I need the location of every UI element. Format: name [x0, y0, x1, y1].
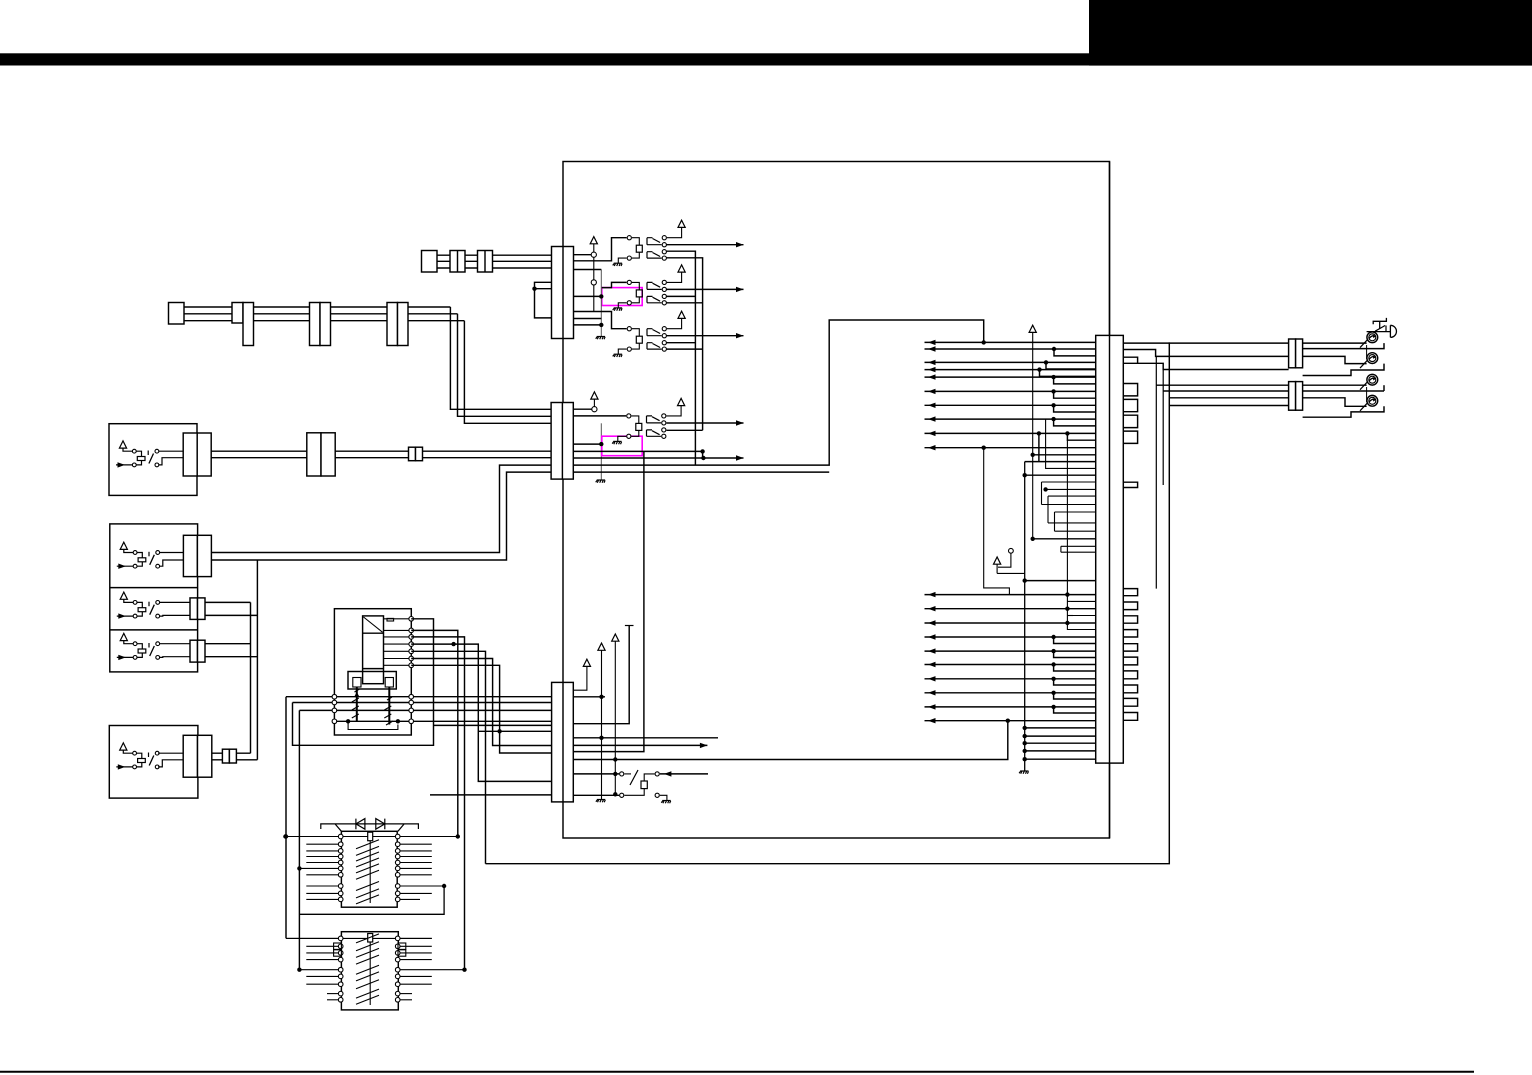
output wire spare jog	[1138, 363, 1289, 369]
wires RL2 to connector	[160, 552, 184, 554]
wire T1 row	[384, 658, 412, 660]
connector P8	[307, 433, 321, 476]
signal line L10	[925, 720, 1096, 722]
wire drops to CN2	[450, 307, 551, 409]
gnd lead U6	[655, 793, 659, 797]
feed elbow	[1051, 635, 1055, 639]
lamp L4 slash	[1360, 401, 1369, 411]
base plate	[348, 672, 396, 690]
U2 left leads	[602, 282, 627, 287]
signal line U10	[925, 447, 1096, 449]
wire RL5 out	[212, 752, 251, 754]
mech link dash 3-4	[1366, 387, 1368, 402]
lamp L2	[1367, 353, 1378, 364]
power symbol right	[1029, 325, 1036, 332]
jumper	[1123, 399, 1137, 411]
lamp L3 slash	[1360, 380, 1369, 390]
long loop to right column	[573, 320, 983, 465]
jumper	[1123, 589, 1137, 596]
switch row A10	[306, 898, 338, 900]
ch1 return	[1303, 343, 1384, 349]
elbow L1-L3	[1071, 600, 1096, 602]
connector P10	[222, 749, 229, 763]
feed elbow	[1051, 662, 1055, 666]
stem link bar	[348, 721, 398, 729]
connector P9	[409, 447, 416, 461]
vertical to gnd at CN1	[600, 270, 602, 337]
switch row B8	[327, 993, 338, 995]
wire RL3 rows	[205, 601, 251, 603]
relay module U1: power symbol	[678, 220, 685, 227]
power symbol	[120, 743, 127, 750]
signal line L1	[925, 594, 1096, 596]
wire CN2 row 451	[573, 450, 702, 452]
feed elbow	[1051, 677, 1055, 681]
wire T1 row1 riser + left loop	[293, 619, 434, 746]
switch row A1	[285, 836, 338, 838]
signal line U3	[925, 361, 1096, 363]
wire T1 row	[384, 618, 412, 620]
connector CN3	[552, 682, 574, 802]
jumper	[1123, 415, 1137, 427]
jumper	[1123, 713, 1137, 721]
signal line U2	[925, 348, 1096, 350]
wire riser row 651 to bottom loop	[411, 651, 485, 863]
arrow line U6	[660, 773, 708, 775]
wire riser row 658	[411, 659, 551, 746]
connector pair P5	[232, 303, 243, 324]
lamp L4	[1367, 395, 1378, 406]
wire coil row A	[285, 836, 457, 838]
switch row B9	[327, 999, 338, 1001]
switch contact	[148, 552, 150, 557]
actuator line B	[369, 942, 371, 1005]
wire pair RL1 to CN2	[211, 450, 551, 452]
feed elbow	[1051, 691, 1055, 695]
connector CN1	[552, 247, 574, 339]
relay module U1: coil	[636, 245, 642, 252]
wire T1 row	[384, 664, 412, 666]
feed elbow	[1051, 403, 1055, 407]
junction	[451, 642, 455, 646]
jumper	[1123, 644, 1137, 651]
jumper	[1123, 657, 1137, 665]
switch row A4	[306, 856, 338, 858]
wire bus riser B	[256, 560, 258, 760]
switch row A7	[306, 874, 338, 876]
bundle row	[1022, 741, 1026, 745]
wire riser to block B	[411, 637, 464, 970]
switch row B4	[306, 959, 338, 961]
junction riser/block A	[456, 834, 460, 838]
relay module U1: contact pins	[662, 236, 666, 240]
long feed vertical	[1066, 440, 1068, 623]
long wire row 759 to right column	[573, 721, 1008, 760]
switch bank block B	[341, 932, 398, 1010]
wire 3-core cable to CN1	[437, 254, 552, 256]
arrow line U2	[667, 288, 744, 290]
relay unit box RL1	[109, 424, 197, 496]
ch3 return	[1383, 385, 1385, 391]
output wires block2	[1156, 384, 1366, 386]
buzzer BZ1	[1373, 318, 1386, 329]
connector P4	[169, 303, 185, 325]
relay module U1: coil pin top	[627, 236, 631, 240]
relay module U3: coil pin top	[627, 327, 631, 331]
connector CN-RL2	[183, 535, 197, 576]
signal line L4	[925, 636, 1096, 638]
wires RL5 to connector	[158, 752, 183, 754]
input arrow	[117, 656, 133, 658]
junction riser/block B	[462, 968, 466, 972]
connector pair P6	[310, 303, 321, 346]
pink highlight loop 1	[602, 288, 642, 306]
wire riser row 644	[411, 644, 551, 781]
U1 left leads	[573, 238, 626, 261]
lamp L3	[1367, 374, 1378, 385]
relay module U5: contact pins	[662, 414, 666, 418]
relay module U1: ground lead	[618, 258, 626, 263]
connector CN-RL3	[190, 598, 198, 620]
ch4 lamp feed	[1303, 398, 1367, 407]
signal line L6	[925, 664, 1096, 666]
switch row A2	[306, 843, 338, 845]
arrow line U5	[667, 422, 744, 424]
right link A8 to B	[299, 886, 444, 914]
jumper	[1123, 431, 1137, 443]
switch row A5	[306, 862, 338, 864]
switch row B6	[306, 975, 338, 977]
bundle row	[1022, 757, 1026, 761]
output wire ch1	[1123, 342, 1366, 344]
wire 3-core cable mid chain	[184, 306, 450, 308]
side tabs B	[334, 943, 342, 949]
signal line U6	[925, 390, 1096, 392]
input arrow	[116, 464, 132, 466]
relay module U5: coil	[636, 423, 642, 430]
bus U3 rows	[667, 342, 696, 344]
lamp L1 slash	[1360, 338, 1369, 348]
connector pair P2	[450, 251, 465, 273]
wire bottom row	[293, 702, 552, 704]
relay module U5: ground lead	[618, 436, 626, 441]
relay module U6	[573, 773, 619, 775]
relay coil	[133, 642, 137, 646]
jumper	[1123, 698, 1137, 706]
relay module U3: coil	[636, 336, 642, 343]
feed elbow	[1051, 649, 1055, 653]
switch contact	[148, 602, 150, 607]
connector CN-RL5	[183, 735, 197, 777]
feed elbow	[1037, 367, 1041, 371]
stem junction dots	[346, 719, 350, 723]
signal line U5	[925, 376, 1096, 378]
connector CN-RL4	[190, 640, 198, 662]
switch row A3	[306, 850, 338, 852]
footer rule	[0, 1071, 1474, 1073]
feed elbow	[1044, 360, 1048, 364]
wires RL3 to connector	[160, 601, 190, 603]
switch row B3	[306, 952, 338, 954]
CN1 left hook loop	[535, 282, 552, 318]
bus U5 row2	[667, 429, 703, 431]
input arrow	[117, 615, 133, 617]
connector CN10	[1096, 335, 1124, 763]
switch contact	[147, 451, 149, 456]
left loop riser 2	[298, 710, 300, 969]
relay module U3: power symbol	[678, 311, 685, 318]
bus U1 rows	[667, 251, 696, 465]
input arrow	[116, 766, 132, 768]
junction on row 444	[599, 442, 603, 446]
transformer block outline	[334, 609, 411, 735]
signal line L5	[925, 650, 1096, 652]
lamp L1	[1367, 332, 1378, 343]
wire T1 row	[384, 629, 412, 631]
power symbol at CN1	[590, 237, 597, 244]
wire row 738 long	[573, 737, 718, 739]
pink highlight loop 2	[602, 436, 642, 456]
signal line U1	[925, 341, 1096, 343]
connector pair P7	[387, 303, 398, 346]
jumper	[1123, 685, 1137, 693]
wire row 725 jog	[434, 724, 552, 726]
feed elbow	[1051, 705, 1055, 709]
ch2 return	[1303, 364, 1384, 376]
bundle row	[1022, 749, 1026, 753]
wire long bottom loop	[486, 342, 1170, 863]
comb pair top	[1123, 357, 1137, 363]
input arrow	[117, 565, 133, 567]
power symbol	[120, 633, 127, 640]
vertical feeder 2	[1162, 370, 1164, 486]
wire row 795	[430, 794, 552, 796]
capacitor C1	[387, 618, 394, 621]
power rail vertical	[1032, 332, 1034, 538]
gnd at bundle	[1019, 771, 1028, 774]
pin stub circle	[1009, 548, 1014, 553]
wire RL2 upper to CN2	[211, 465, 551, 552]
power symbol mid	[994, 557, 1001, 564]
relay module U2: power symbol	[678, 265, 685, 272]
signal line U9	[925, 432, 1096, 434]
feed elbow	[1065, 431, 1069, 435]
switch bank block A	[341, 831, 397, 907]
bus U2 rows	[667, 295, 696, 297]
arrow line U1	[667, 244, 744, 246]
vertical feeder 1	[1155, 356, 1157, 588]
arrow tick stem A	[355, 692, 359, 696]
wire coil row B	[286, 937, 432, 939]
mech link dash 1-2	[1366, 345, 1368, 359]
bundle rows mid	[1033, 454, 1096, 456]
riser from U10	[984, 448, 1010, 595]
signal line U7	[925, 404, 1096, 406]
switch row B1	[286, 937, 338, 939]
switch row A9	[306, 892, 338, 894]
wire row 472 to riser	[573, 471, 829, 473]
relay coil	[133, 751, 137, 755]
feed elbow	[1052, 347, 1056, 351]
output wire ch2 feed jog	[1123, 350, 1288, 357]
diode D2	[376, 819, 385, 830]
relay module U2: coil pin top	[627, 280, 631, 284]
connector P1	[422, 251, 438, 273]
feed elbow	[1051, 389, 1055, 393]
jumper	[1123, 616, 1137, 623]
signal line L3	[925, 622, 1096, 624]
coil U6	[641, 781, 647, 789]
coil A	[368, 832, 373, 841]
switch contact	[148, 753, 150, 758]
relay module U2: coil	[636, 290, 642, 297]
signal line U8	[925, 418, 1096, 420]
coil B	[368, 934, 373, 943]
arrow line row 745	[573, 744, 707, 746]
switch row A6	[299, 867, 338, 869]
relay module U2: ground lead	[618, 303, 626, 308]
title block (solid)	[1089, 0, 1532, 66]
switch stem A	[353, 678, 361, 688]
bundle row	[1022, 726, 1026, 730]
jumper	[1123, 671, 1137, 679]
lamp L2 slash	[1360, 359, 1369, 369]
wire RL4 rows	[205, 643, 251, 645]
jumper mid	[1123, 482, 1137, 487]
wire bottom row	[299, 709, 551, 711]
output connector CNJ2	[1289, 382, 1296, 411]
relay module U3: ground lead	[618, 349, 626, 354]
wire bottom row	[286, 696, 552, 698]
ch4 return	[1303, 406, 1384, 417]
signal line L8	[925, 692, 1096, 694]
feed elbow	[1051, 417, 1055, 421]
switch contact	[148, 643, 150, 648]
wire bottom row	[334, 720, 551, 722]
diode D1	[356, 819, 365, 830]
wire riser to block A	[411, 630, 458, 836]
wire row 752 to riser from CN2 row 451	[573, 451, 644, 751]
wire T1 row	[384, 636, 412, 638]
diode bar	[321, 824, 419, 831]
power symbol	[120, 592, 127, 599]
left loop riser 1	[285, 697, 287, 939]
relay unit box RL5	[109, 726, 198, 799]
power symbol	[119, 441, 126, 448]
relay module U5: power symbol	[678, 398, 685, 405]
relay module U2: contact pins	[662, 280, 666, 284]
wire T1 row	[384, 643, 412, 645]
main board outline	[563, 162, 1110, 839]
jumper	[1123, 630, 1137, 637]
wire T1 row	[384, 650, 412, 652]
connector CN2	[551, 403, 573, 480]
connector pair P3	[478, 251, 493, 273]
power symbol A at CN3	[583, 659, 590, 666]
jumper	[1123, 384, 1137, 396]
actuator line A	[369, 841, 371, 903]
optocoupler/transformer body T1	[363, 616, 384, 684]
signal line L9	[925, 706, 1096, 708]
feed elbow	[1051, 375, 1055, 379]
relay coil	[133, 601, 137, 605]
arrow line U3	[667, 335, 744, 337]
wire riser row 665	[411, 665, 551, 753]
relay coil	[133, 551, 137, 555]
U3 left leads	[573, 312, 626, 329]
bundle row	[1022, 734, 1026, 738]
switch row A8	[306, 885, 338, 887]
relay unit box RL2-RL4	[110, 524, 198, 672]
jumper	[1123, 602, 1137, 610]
wire row 697	[573, 696, 605, 698]
CN1 stub row	[573, 318, 601, 320]
power symbol B rail at CN3	[598, 643, 605, 650]
switch row B7	[306, 983, 338, 985]
power symbol C rail at CN3	[612, 634, 619, 641]
wire CN2 pin to U5	[573, 415, 626, 417]
ch2 lamp feed	[1303, 356, 1367, 363]
arrow line row 458	[573, 457, 743, 459]
relay coil	[132, 449, 136, 453]
signal line U4	[925, 369, 1096, 371]
output connector CNJ1	[1289, 339, 1296, 368]
wires RL4 to connector	[160, 643, 190, 645]
grey stub to gnd	[600, 423, 602, 480]
switch row B2	[306, 945, 338, 947]
wires RL1 to connector	[159, 450, 183, 452]
power symbol	[120, 542, 127, 549]
header rule bar	[0, 53, 1532, 65]
signal line L7	[925, 678, 1096, 680]
wire RL2 lower bus	[211, 472, 551, 560]
switch row B5	[299, 969, 338, 971]
relay module U3: contact pins	[662, 327, 666, 331]
signal line L2	[925, 608, 1096, 610]
switch stem B	[385, 678, 393, 688]
relay module U5: coil pin top	[627, 414, 631, 418]
wire row 724 to riser with T-bar	[573, 626, 629, 724]
power symbol at CN2	[591, 392, 598, 399]
connector CN-RL1	[183, 433, 197, 476]
wire bus riser A	[250, 602, 252, 753]
